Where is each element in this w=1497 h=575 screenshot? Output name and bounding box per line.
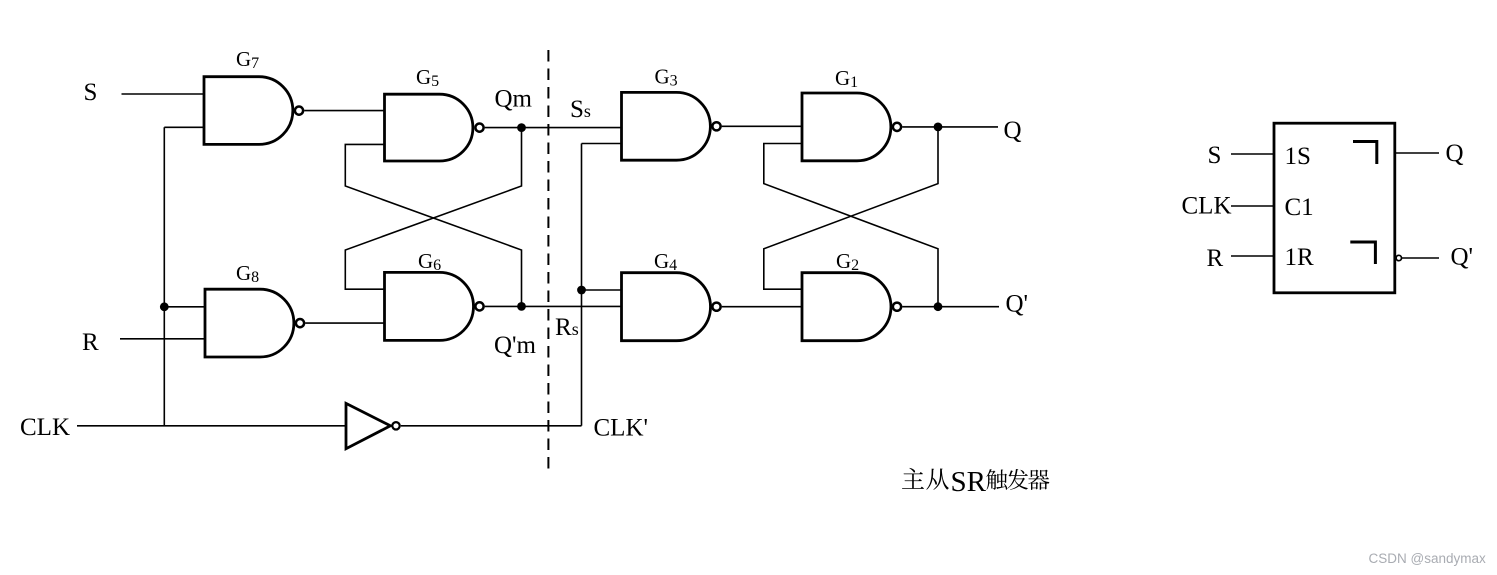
nand gate G6 bbox=[385, 272, 474, 340]
wire Rs net: G6 output to G4 input bbox=[485, 305, 622, 307]
nand gate G5 bbox=[385, 94, 473, 161]
bubble Q' (block) bbox=[1396, 255, 1401, 260]
svg-text:Qm: Qm bbox=[495, 86, 533, 113]
bubble G7 output bbox=[295, 107, 303, 115]
svg-text:CSDN @sandymax: CSDN @sandymax bbox=[1369, 551, 1486, 566]
junction Q'm node bbox=[517, 302, 526, 311]
wire CLK' to G3 input 2 bbox=[582, 143, 622, 145]
pin wire S to 1S bbox=[1231, 153, 1274, 155]
pin wire Q (block) bbox=[1395, 152, 1439, 154]
pin wire CLK to C1 bbox=[1231, 205, 1274, 207]
wire CLK' horizontal bbox=[401, 425, 582, 427]
nand gate G4 bbox=[622, 273, 711, 341]
bubble G5 output bbox=[475, 124, 483, 132]
wire CLK' to G4 input 1 bbox=[582, 289, 622, 291]
wire Qm net: G5 output to G3 input bbox=[485, 127, 622, 129]
inverter (CLK NOT gate) bbox=[346, 403, 390, 448]
svg-text:C1: C1 bbox=[1285, 194, 1314, 221]
svg-text:G6: G6 bbox=[418, 249, 441, 274]
dashed master-slave divider bbox=[547, 50, 549, 471]
svg-text:CLK: CLK bbox=[20, 414, 70, 441]
nand gate G8 bbox=[205, 289, 294, 357]
svg-text:Q: Q bbox=[1004, 117, 1022, 144]
bubble G3 output bbox=[712, 122, 720, 130]
svg-text:G7: G7 bbox=[236, 47, 259, 72]
pin wire Q' (block) bbox=[1402, 257, 1439, 259]
svg-text:S: S bbox=[84, 79, 98, 106]
svg-text:CLK: CLK bbox=[1182, 193, 1232, 220]
wire CLK to G8 input 1 bbox=[164, 306, 205, 308]
svg-text:G4: G4 bbox=[654, 249, 677, 274]
svg-text:Q: Q bbox=[1446, 140, 1464, 167]
wire CLK vertical riser bbox=[163, 127, 165, 426]
junction CLK' to G4 bbox=[577, 286, 586, 295]
svg-text:Rs: Rs bbox=[555, 314, 579, 341]
svg-text:G5: G5 bbox=[416, 65, 439, 90]
wire G7 output to G5 input bbox=[304, 110, 384, 112]
caption: master-slave SR flip-flop (Chinese) bbox=[902, 466, 1049, 498]
wire CLK to G7 input 2 bbox=[164, 126, 204, 128]
svg-text:Q'm: Q'm bbox=[494, 332, 537, 359]
svg-text:Ss: Ss bbox=[570, 96, 591, 123]
wire Qm feedback: node down to crossover bbox=[345, 128, 521, 290]
bubble G8 output bbox=[296, 319, 304, 327]
svg-text:S: S bbox=[1208, 142, 1222, 169]
nand gate G3 bbox=[622, 92, 711, 160]
bubble G4 output bbox=[712, 303, 720, 311]
bubble inverter output bbox=[392, 422, 399, 429]
bubble G2 output bbox=[893, 303, 901, 311]
bubble G6 output bbox=[475, 302, 483, 310]
junction Qm node bbox=[517, 123, 526, 132]
wire Q feedback: node down to crossover bbox=[764, 127, 938, 289]
postponed-output mark top bbox=[1353, 142, 1377, 165]
bubble G1 output bbox=[893, 123, 901, 131]
svg-text:G1: G1 bbox=[835, 66, 858, 91]
svg-text:G3: G3 bbox=[655, 65, 678, 90]
wire G4 output to G2 input bbox=[722, 306, 802, 308]
junction CLK to G8 bbox=[160, 302, 169, 311]
nand gate G1 bbox=[802, 93, 891, 161]
svg-text:R: R bbox=[1207, 245, 1224, 272]
flip-flop block symbol body bbox=[1274, 123, 1395, 293]
wire R input bbox=[120, 338, 205, 340]
wire Q'm feedback: crossover to G5 input 2 bbox=[345, 144, 521, 306]
svg-text:Q': Q' bbox=[1006, 291, 1029, 318]
svg-text:CLK': CLK' bbox=[594, 415, 649, 442]
junction Q node bbox=[934, 123, 943, 132]
wire G8 output to G6 input bbox=[305, 322, 384, 324]
wire Q' feedback: crossover to G1 input 2 bbox=[764, 144, 938, 307]
svg-text:1S: 1S bbox=[1285, 143, 1311, 170]
nand gate G7 bbox=[204, 77, 293, 145]
nand gate G2 bbox=[802, 273, 891, 341]
svg-text:Q': Q' bbox=[1451, 244, 1474, 271]
postponed-output mark bottom bbox=[1350, 242, 1375, 264]
svg-text:G8: G8 bbox=[236, 261, 259, 286]
wire Q net output bbox=[902, 126, 998, 128]
wire Q' net output bbox=[902, 306, 999, 308]
wire S input bbox=[122, 93, 205, 95]
junction Q' node bbox=[934, 302, 943, 311]
svg-text:SR: SR bbox=[951, 466, 987, 498]
wire G3 output to G1 input bbox=[722, 125, 802, 127]
wire CLK' vertical riser bbox=[581, 144, 583, 426]
wire CLK input bbox=[77, 425, 346, 427]
pin wire R to 1R bbox=[1231, 255, 1274, 257]
svg-text:1R: 1R bbox=[1285, 244, 1315, 271]
svg-text:R: R bbox=[82, 329, 99, 356]
svg-text:G2: G2 bbox=[836, 249, 859, 274]
